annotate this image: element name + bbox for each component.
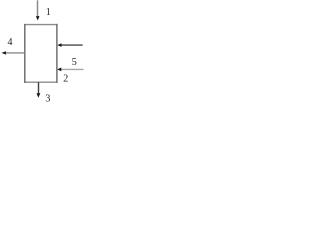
svg-text:1: 1 [46,7,51,18]
wire: top input line [37,0,39,16]
wire: right lower input line (gray) [61,68,84,70]
svg-text:4: 4 [8,37,13,48]
process block rectangle: bottom edge [24,81,57,83]
wire: left output line [5,52,25,54]
arrowhead: right lower input [57,68,61,72]
process block rectangle: top edge [24,24,57,26]
wire: bottom output line [38,82,40,94]
arrowhead: right upper input [57,43,61,47]
arrowhead: top input [36,16,40,20]
svg-text:2: 2 [63,74,68,85]
arrowhead: left output [2,51,6,54]
process block rectangle: right edge [56,24,58,83]
svg-text:5: 5 [72,57,77,68]
svg-text:3: 3 [45,94,50,105]
process block rectangle: left edge [24,24,26,83]
arrowhead: bottom output [37,93,41,98]
wire: right upper input line [61,44,83,46]
